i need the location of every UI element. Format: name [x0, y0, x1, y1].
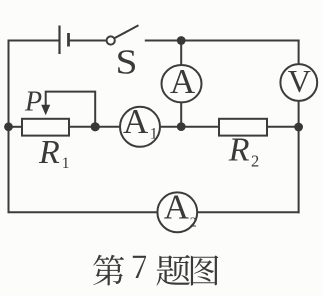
ammeter A circle	[162, 65, 202, 102]
rheostat R1 body	[22, 119, 69, 136]
wire top-left from corner to battery	[9, 40, 59, 42]
caption glyph 7	[133, 256, 146, 278]
wire slider branch: node up, left to slider	[46, 92, 95, 127]
svg-text:R: R	[228, 132, 250, 169]
svg-text:S: S	[116, 42, 138, 81]
ammeter A1 circle	[120, 107, 160, 147]
wire left node to R1	[9, 126, 23, 128]
battery short plate (-)	[67, 33, 70, 47]
node mid (A/A1/R2 junction)	[177, 122, 186, 131]
wire A1 to R2	[160, 126, 219, 128]
wire V bottom to node	[298, 101, 300, 127]
node left (R1 tap on left rail)	[4, 122, 13, 131]
resistor R2 body	[219, 119, 267, 136]
svg-text:A: A	[170, 62, 196, 101]
switch lever	[114, 25, 138, 38]
wire R1 to A1	[69, 126, 120, 128]
svg-text:1: 1	[62, 155, 70, 172]
ammeter A2 circle	[157, 192, 197, 232]
wire ammeter A to node mid	[180, 103, 182, 127]
svg-text:2: 2	[251, 152, 259, 171]
svg-text:1: 1	[150, 126, 158, 143]
switch pivot circle	[107, 36, 115, 44]
node right (R2/V junction)	[294, 123, 303, 132]
wire top from switch to right corner	[145, 40, 300, 42]
wire left vertical	[8, 40, 10, 214]
svg-text:A: A	[123, 102, 149, 141]
svg-text:V: V	[288, 63, 311, 99]
wire bottom from left corner to A2	[9, 211, 158, 213]
slider arrowhead	[41, 105, 50, 116]
node top (switch/A junction)	[177, 36, 186, 45]
caption glyph 题	[156, 255, 190, 286]
svg-text:P: P	[24, 87, 42, 118]
wire right vertical lower (node R2V to bottom corner)	[298, 127, 300, 213]
wire R2 to node R2V	[267, 126, 299, 128]
wire right vertical upper (corner to V top)	[298, 40, 300, 65]
caption glyph 第	[93, 255, 124, 286]
caption glyph 图	[191, 255, 219, 285]
svg-text:R: R	[38, 134, 60, 171]
svg-text:A: A	[164, 188, 190, 227]
voltmeter V circle	[280, 64, 317, 101]
wire bottom from A2 to right corner	[197, 211, 300, 213]
battery long plate (+)	[58, 26, 60, 55]
wire battery to switch	[69, 40, 107, 42]
node slider junction	[91, 122, 100, 131]
wire node A-top down to ammeter A	[180, 41, 182, 65]
svg-text:2: 2	[190, 216, 197, 231]
